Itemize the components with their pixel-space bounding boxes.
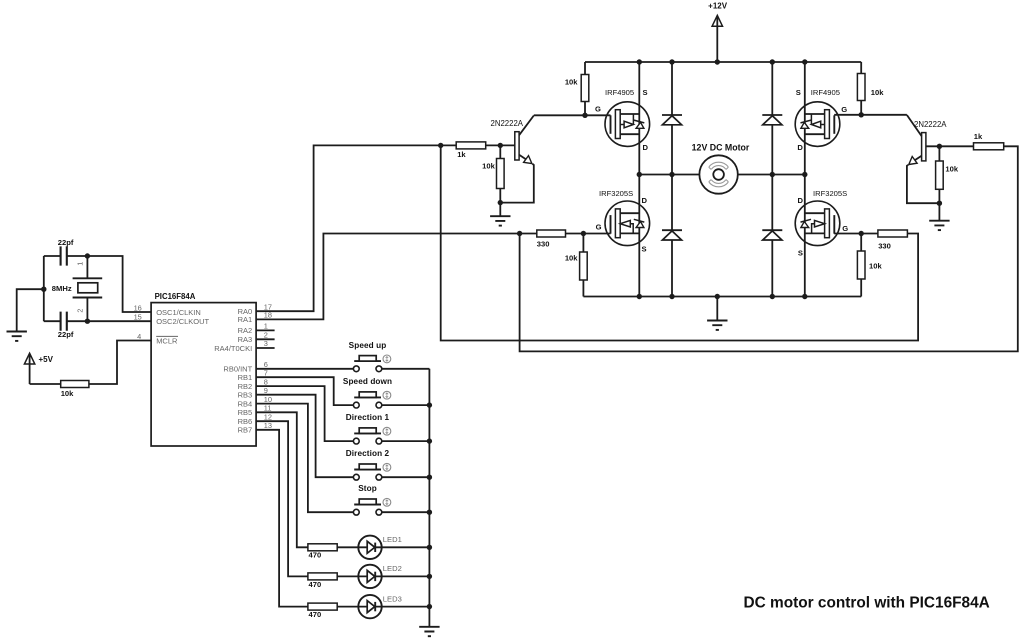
svg-text:10k: 10k	[871, 88, 884, 97]
svg-text:470: 470	[309, 580, 322, 589]
svg-text:4: 4	[137, 332, 141, 341]
diode D1	[662, 115, 682, 125]
title text	[744, 595, 990, 612]
wire LED1 to rail	[381, 546, 429, 548]
node gate right-bottom	[859, 231, 864, 236]
resistor R2 10k	[857, 62, 884, 115]
resistor R14 470	[308, 603, 359, 619]
svg-text:G: G	[596, 223, 602, 232]
svg-text:RB1: RB1	[238, 373, 253, 382]
ground button rail	[419, 627, 439, 636]
wire RB3 to Direction 2	[256, 395, 353, 478]
svg-text:S: S	[796, 88, 801, 97]
svg-text:G: G	[842, 224, 848, 233]
svg-text:10k: 10k	[565, 254, 578, 263]
op-amp U1 PIC16F84A box	[151, 292, 256, 446]
svg-text:10: 10	[264, 395, 272, 404]
svg-text:2: 2	[76, 309, 85, 313]
svg-text:MCLR: MCLR	[156, 336, 178, 345]
svg-text:330: 330	[878, 241, 891, 250]
node base left	[438, 143, 503, 148]
svg-text:9: 9	[264, 386, 268, 395]
transistor Q1 IRF4905 top-left	[585, 88, 650, 152]
LED LED2	[358, 564, 402, 588]
pin names left	[134, 303, 210, 345]
resistor R5 1k	[456, 142, 515, 159]
wire top rail	[585, 61, 861, 63]
svg-text:G: G	[595, 105, 601, 114]
svg-text:15: 15	[134, 313, 142, 322]
svg-text:RA2: RA2	[238, 326, 253, 335]
svg-text:S: S	[798, 249, 803, 258]
wire RB6 to LED2	[256, 421, 308, 576]
LED LED1	[358, 535, 402, 559]
svg-text:1: 1	[264, 322, 268, 331]
wire RA0 cross-link to right 330	[441, 145, 918, 340]
wire RB5 to LED1	[256, 412, 308, 547]
wire button common rail	[427, 369, 432, 627]
svg-text:RB4: RB4	[238, 399, 253, 408]
svg-text:RA1: RA1	[238, 315, 253, 324]
node RA1 branch	[517, 231, 522, 236]
svg-text:10k: 10k	[869, 262, 882, 271]
node gate right-top	[859, 112, 864, 117]
svg-text:RA3: RA3	[238, 335, 253, 344]
wire RA0 pin17 net	[256, 145, 456, 311]
svg-text:S: S	[643, 88, 648, 97]
wire RA1 right branch to base	[926, 145, 1004, 147]
svg-text:OSC2/CLKOUT: OSC2/CLKOUT	[156, 317, 209, 326]
svg-text:D: D	[798, 196, 804, 205]
wire LED3 to rail	[381, 606, 429, 608]
+12V supply symbol	[708, 2, 728, 62]
switch SW1 Speed up	[349, 341, 391, 372]
capacitor C1 22pf	[44, 238, 88, 266]
svg-text:D: D	[797, 143, 803, 152]
resistor R12 470	[308, 544, 359, 560]
transistor Q5 2N2222A	[491, 115, 586, 202]
wire SW1 to rail	[382, 368, 430, 370]
svg-text:RB5: RB5	[238, 408, 253, 417]
svg-text:10k: 10k	[565, 77, 578, 86]
pin names right	[214, 302, 272, 434]
resistor R1 10k	[565, 62, 589, 115]
diode D4	[762, 230, 782, 240]
svg-text:1k: 1k	[974, 132, 983, 141]
svg-text:22pf: 22pf	[58, 330, 74, 339]
wire RB4 to Stop	[256, 404, 353, 513]
wire SW5 to rail	[382, 511, 430, 513]
svg-text:330: 330	[537, 239, 550, 248]
svg-text:PIC16F84A: PIC16F84A	[155, 292, 196, 301]
resistor R9 10k	[936, 146, 959, 203]
svg-text:13: 13	[264, 421, 272, 430]
svg-text:IRF4905: IRF4905	[811, 88, 840, 97]
diode D2	[762, 115, 782, 125]
transistor Q6 2N2222A	[861, 115, 947, 203]
wire RA1 cross-link to right 1k	[520, 146, 1018, 351]
motor 12V DC Motor	[692, 142, 750, 193]
transistor Q4 IRF3205S bottom-right	[795, 189, 861, 257]
svg-text:LED2: LED2	[383, 564, 402, 573]
node crystal top	[85, 253, 90, 258]
wire bottom rail	[583, 294, 861, 299]
svg-text:10k: 10k	[61, 389, 74, 398]
node emitter right / ground	[929, 201, 949, 231]
svg-text:RA4/T0CKI: RA4/T0CKI	[214, 344, 252, 353]
svg-text:1k: 1k	[457, 150, 466, 159]
resistor R3 10k	[565, 234, 587, 297]
+5V supply symbol	[24, 353, 53, 384]
svg-text:3: 3	[264, 339, 268, 348]
transistor Q2 IRF4905 top-right	[795, 88, 861, 152]
node base right	[937, 144, 942, 149]
svg-text:D: D	[643, 143, 649, 152]
wire OSC1 to PIC	[87, 256, 151, 312]
wire right diode column	[771, 62, 773, 297]
svg-text:2: 2	[264, 331, 268, 340]
node top rail junctions	[637, 59, 808, 64]
svg-text:G: G	[841, 105, 847, 114]
svg-text:Speed down: Speed down	[343, 377, 392, 386]
svg-text:RB3: RB3	[238, 391, 253, 400]
svg-text:OSC1/CLKIN: OSC1/CLKIN	[156, 308, 201, 317]
wire RB1 to Speed down	[256, 377, 353, 405]
wire cap left link	[43, 256, 45, 321]
wire right MOSFET drain-source column	[804, 62, 806, 297]
svg-text:Speed up: Speed up	[349, 341, 387, 350]
svg-text:RB7: RB7	[238, 426, 253, 435]
svg-text:IRF4905: IRF4905	[605, 88, 634, 97]
wire RB2 to Direction 1	[256, 386, 353, 441]
pin stubs RA2 RA3 RA4	[256, 330, 275, 348]
svg-text:22pf: 22pf	[58, 238, 74, 247]
svg-text:+5V: +5V	[39, 355, 54, 364]
svg-text:S: S	[642, 245, 647, 254]
wire left diode column	[671, 62, 673, 297]
svg-text:LED3: LED3	[383, 594, 402, 603]
transistor Q3 IRF3205S bottom-left	[583, 189, 649, 253]
svg-text:10k: 10k	[482, 162, 495, 171]
capacitor C2 22pf	[44, 312, 151, 339]
node gate left-top	[582, 113, 587, 118]
ground crystal	[7, 287, 47, 341]
resistor R8 1k	[974, 132, 1004, 150]
wire motor mid rail	[637, 172, 808, 177]
svg-text:+12V: +12V	[708, 2, 728, 11]
wire SW4 to rail	[382, 476, 430, 478]
resistor R10 330	[861, 230, 907, 250]
svg-text:12V DC Motor: 12V DC Motor	[692, 142, 750, 152]
svg-text:470: 470	[309, 551, 322, 560]
svg-text:18: 18	[264, 311, 272, 320]
diode D3	[662, 230, 682, 240]
wire RB0 to Speed up	[256, 368, 353, 370]
svg-text:DC motor control with PIC16F84: DC motor control with PIC16F84A	[744, 595, 990, 612]
switch SW2 Speed down	[343, 377, 392, 408]
svg-text:2N2222A: 2N2222A	[914, 120, 947, 129]
svg-text:1: 1	[76, 262, 85, 266]
svg-text:IRF3205S: IRF3205S	[599, 189, 633, 198]
svg-text:D: D	[642, 196, 648, 205]
svg-text:LED1: LED1	[383, 535, 402, 544]
wire RB7 to LED3	[256, 430, 308, 607]
svg-text:IRF3205S: IRF3205S	[813, 189, 847, 198]
svg-text:Direction 2: Direction 2	[346, 449, 390, 458]
node gate left-bottom	[581, 231, 586, 236]
svg-text:16: 16	[134, 303, 142, 312]
svg-text:7: 7	[264, 368, 268, 377]
resistor R6 10k	[482, 145, 504, 202]
svg-text:8MHz: 8MHz	[52, 284, 72, 293]
wire RA1 pin18 net	[256, 234, 537, 320]
crystal X1 8MHz	[52, 256, 102, 321]
svg-text:470: 470	[309, 610, 322, 619]
node emitter left / ground	[490, 200, 510, 226]
resistor R11 10k	[30, 341, 152, 399]
ground H-bridge	[707, 297, 727, 330]
svg-text:2N2222A: 2N2222A	[491, 119, 524, 128]
wire left MOSFET drain-source column	[638, 62, 640, 297]
switch SW3 Direction 1	[346, 413, 391, 444]
node crystal bottom	[85, 319, 90, 324]
wire SW3 to rail	[382, 440, 430, 442]
svg-text:Direction 1: Direction 1	[346, 413, 390, 422]
resistor R4 10k	[857, 234, 882, 297]
LED LED3	[358, 594, 402, 618]
svg-text:Stop: Stop	[358, 484, 377, 493]
svg-text:10k: 10k	[945, 164, 958, 173]
resistor R13 470	[308, 573, 359, 589]
wire SW2 to rail	[382, 404, 430, 406]
switch SW5 Stop	[353, 484, 390, 515]
svg-text:11: 11	[264, 404, 272, 413]
wire LED2 to rail	[381, 575, 429, 577]
switch SW4 Direction 2	[346, 449, 391, 480]
resistor R7 330	[537, 230, 584, 248]
